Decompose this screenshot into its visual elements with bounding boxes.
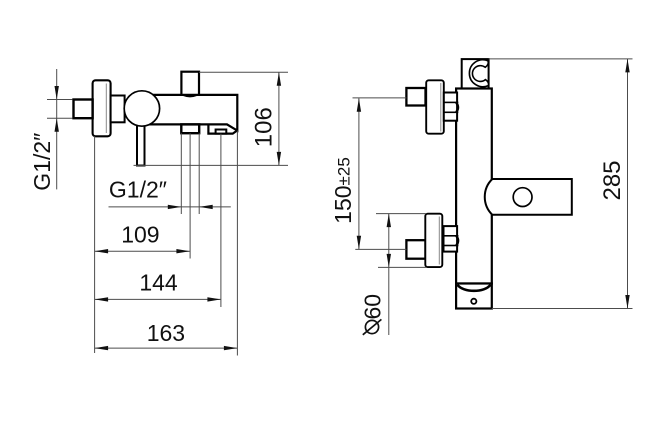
svg-text:109: 109	[121, 221, 159, 247]
lower nut line 1	[444, 235, 459, 237]
svg-text:285: 285	[599, 160, 626, 200]
lower bracket square	[406, 240, 425, 259]
arrow left at hose right	[199, 205, 213, 209]
dim line phi60	[388, 214, 390, 335]
ext lower bracket	[355, 248, 406, 250]
svg-text:60: 60	[360, 294, 386, 320]
upper bracket square	[406, 88, 425, 106]
arrow left 144	[95, 297, 109, 301]
arrow right at hose left	[168, 205, 182, 209]
ext 285 top	[489, 58, 633, 60]
column bar	[456, 89, 492, 284]
svg-text:150±25: 150±25	[330, 157, 356, 224]
label phi60 rotated	[360, 294, 386, 320]
spout	[208, 124, 237, 133]
ext upper bracket	[353, 97, 407, 99]
svg-text:G1/2″: G1/2″	[109, 177, 167, 203]
ext flange bottom	[378, 266, 427, 268]
handshower holder box	[462, 59, 489, 88]
wall plane ext line	[94, 136, 96, 353]
ext line bottom 106	[134, 164, 289, 166]
lower flange highlight	[438, 217, 440, 265]
arrow down 106	[277, 152, 281, 166]
arrow down to top tick	[55, 86, 59, 100]
lower nut line 2	[444, 245, 459, 247]
arrow up to bottom tick	[55, 118, 59, 132]
bottom cap hole	[471, 299, 476, 304]
arrow left 109	[95, 249, 109, 253]
aerator	[216, 130, 227, 134]
upper nut bulge	[456, 102, 458, 112]
dim line 150	[358, 98, 360, 249]
svg-text:163: 163	[147, 320, 185, 346]
label 150+-25 rotated	[330, 157, 356, 224]
arrow up 150	[357, 98, 361, 112]
outlet-body fillet	[184, 95, 197, 96]
upper bracket flange	[426, 80, 444, 133]
bottom cap arc	[457, 285, 490, 291]
label 106 rotated	[251, 107, 278, 147]
hose connection G1/2	[181, 124, 199, 133]
inlet tick top	[47, 99, 73, 101]
upper nut line 1	[444, 101, 459, 103]
dim line 163	[95, 347, 238, 349]
lower bracket nut	[444, 226, 458, 252]
inlet thread square	[74, 100, 93, 119]
ext hose left	[180, 133, 182, 214]
upper bracket nut	[444, 93, 457, 121]
arrow right 163	[224, 346, 238, 350]
arrow up 106	[277, 72, 281, 86]
svg-text:144: 144	[139, 270, 178, 296]
ext line top 106	[199, 71, 288, 73]
bottom cap	[456, 284, 492, 309]
lower bracket flange	[425, 214, 442, 267]
svg-text:G1/2″: G1/2″	[29, 133, 55, 191]
ext hose center	[189, 133, 191, 258]
arrow right 144	[207, 297, 221, 301]
arrow up 285	[625, 59, 629, 73]
label 285 rotated	[599, 160, 626, 200]
upper nut line 2	[444, 111, 459, 113]
top outlet port	[181, 72, 199, 96]
upper flange highlight	[440, 83, 442, 132]
arrow up phi60	[387, 214, 391, 228]
lever handle stick	[137, 122, 145, 166]
flange highlight	[105, 84, 107, 134]
dim line 285	[627, 59, 629, 309]
dim line 144	[95, 298, 221, 300]
arrow down 150	[357, 236, 361, 250]
arrow down 285	[625, 295, 629, 309]
arrow down phi60	[387, 254, 391, 268]
inlet tick bottom	[47, 117, 73, 119]
slider arm	[485, 179, 572, 215]
handle ball	[124, 91, 159, 126]
ext hose right	[198, 133, 200, 214]
ext body right	[236, 131, 238, 356]
phi symbol	[365, 320, 378, 333]
ext flange top	[376, 213, 427, 215]
dim line 106	[278, 72, 280, 165]
inlet dim vertical line	[56, 69, 58, 189]
dim line 109	[95, 250, 190, 252]
arrow right 109	[176, 249, 190, 253]
dim line G1/2 bottom	[109, 206, 231, 208]
lower nut bulge	[456, 236, 458, 246]
mixer body	[150, 95, 237, 131]
svg-text:106: 106	[251, 107, 278, 147]
slider knob circle	[513, 188, 532, 207]
handshower hook C	[469, 60, 488, 87]
wall flange	[93, 80, 111, 136]
arrow left 163	[95, 346, 109, 350]
ext aerator center	[220, 134, 222, 307]
label G1/2 rotated	[29, 133, 55, 191]
ext 285 bottom	[492, 308, 633, 310]
phi slash	[363, 319, 382, 334]
connector hub	[111, 96, 125, 123]
